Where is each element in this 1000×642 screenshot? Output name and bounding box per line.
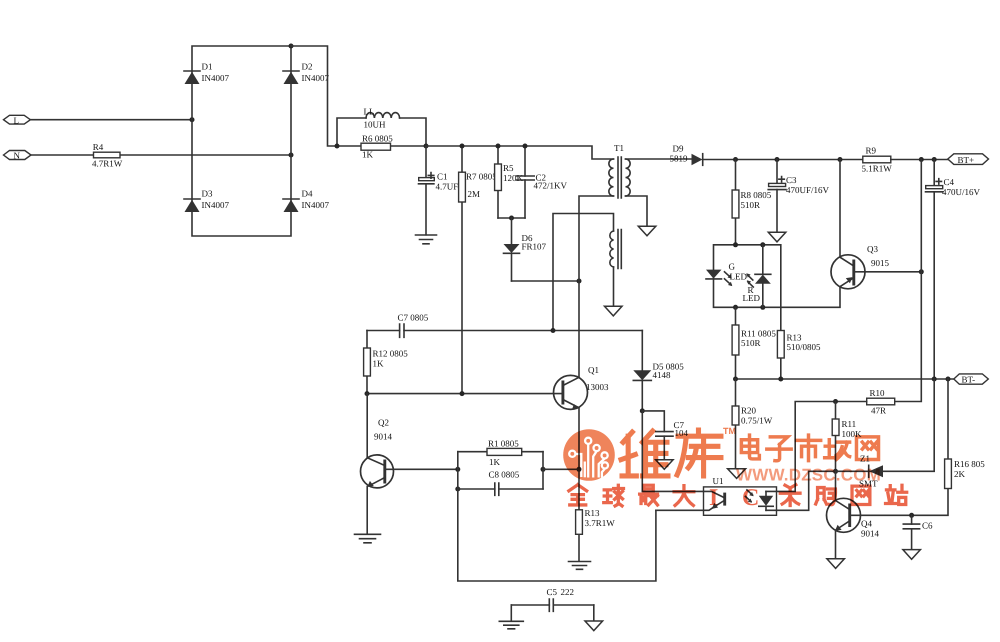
diode D6 FR107 (504, 218, 547, 281)
wire zener row (809, 379, 935, 471)
node LC left (335, 144, 340, 149)
wire BT+ sense vertical (895, 160, 922, 402)
resistor R11 100K (832, 402, 862, 472)
node R12 bottom (365, 391, 370, 396)
diode D5 0805 4148 (633, 331, 684, 411)
svg-text:IN4007: IN4007 (202, 200, 230, 210)
node C3 top (775, 157, 780, 162)
svg-text:R12 0805: R12 0805 (373, 349, 409, 359)
node Q3 base top (919, 157, 924, 162)
svg-text:4.7R1W: 4.7R1W (92, 159, 123, 169)
svg-text:WWW.DZSC.COM: WWW.DZSC.COM (736, 466, 881, 485)
wire Q1 base row (367, 393, 562, 395)
svg-text:L: L (14, 115, 20, 125)
wire D6 to primary bottom (512, 280, 580, 282)
node Q3 base right (919, 269, 924, 274)
diode D1 1N4007 (184, 62, 229, 85)
svg-text:Q4: Q4 (861, 519, 872, 529)
node R5 top (496, 144, 501, 149)
svg-text:T1: T1 (614, 143, 624, 153)
node zener junction (833, 469, 838, 474)
svg-text:N: N (14, 151, 21, 161)
svg-text:472/1KV: 472/1KV (534, 181, 568, 191)
ground R13 (569, 562, 591, 570)
ground C3 (768, 232, 786, 242)
node C2 top (523, 144, 528, 149)
svg-text:C6: C6 (922, 521, 933, 531)
node RC left (455, 467, 460, 472)
node R7 top (460, 144, 465, 149)
watermark logo circle (563, 429, 615, 481)
svg-text:IN4007: IN4007 (302, 200, 330, 210)
wire bridge frame (192, 46, 291, 236)
resistor R8 0805 510R (732, 160, 772, 245)
wire U1 right bottom to zener node (777, 471, 809, 510)
watermark slogan (569, 485, 907, 506)
ground C5 left (499, 621, 523, 629)
wire aux winding top (553, 214, 614, 331)
svg-text:R13: R13 (585, 508, 601, 518)
ground aux winding (605, 306, 623, 316)
node C6 top (909, 513, 914, 518)
node R11 100K top (833, 399, 838, 404)
wire bottom rail (458, 489, 656, 581)
ground secondary (638, 226, 656, 236)
port N (4, 151, 32, 161)
transistor Q1 13003 (554, 365, 610, 469)
svg-text:C3: C3 (786, 175, 797, 185)
resistor R16 805 2K (945, 379, 986, 489)
resistor R12 0805 1K (364, 331, 409, 394)
svg-text:R11: R11 (842, 419, 857, 429)
port BT- (954, 374, 989, 385)
diode D4 1N4007 (283, 189, 329, 213)
svg-text:BT-: BT- (962, 375, 976, 385)
wire U1 left bottom (656, 509, 704, 511)
svg-text:R8 0805: R8 0805 (741, 190, 772, 200)
resistor R9 5.1R1W (862, 146, 893, 174)
transistor Q2 9014 (361, 394, 394, 534)
svg-text:C8 0805: C8 0805 (489, 470, 520, 480)
node BT- rail C4 (932, 377, 937, 382)
svg-text:LED: LED (730, 272, 748, 282)
svg-text:13003: 13003 (586, 382, 609, 392)
svg-text:510R: 510R (741, 338, 761, 348)
svg-text:IN4007: IN4007 (302, 73, 330, 83)
watermark text dianzishichangwang (741, 435, 878, 461)
capacitor C5 222 (511, 587, 594, 621)
svg-text:C1: C1 (437, 172, 448, 182)
LED R (743, 245, 771, 307)
ground R20 (728, 469, 746, 479)
node LED box bottom RLED (760, 305, 765, 310)
svg-text:5819: 5819 (670, 154, 689, 164)
node LC right (424, 144, 429, 149)
svg-text:FR107: FR107 (522, 242, 547, 252)
svg-text:R7 0805: R7 0805 (466, 172, 497, 182)
node primary bottom junction (577, 279, 582, 284)
svg-text:R20: R20 (741, 406, 757, 416)
svg-text:0.75/1W: 0.75/1W (741, 416, 773, 426)
ground C6 (903, 550, 921, 560)
transformer T1 (609, 143, 630, 269)
svg-text:C4: C4 (944, 177, 955, 187)
capacitor C7 0805 (398, 313, 429, 338)
node R7 bottom (460, 391, 465, 396)
port L (4, 115, 31, 125)
svg-text:5.1R1W: 5.1R1W (862, 164, 893, 174)
svg-text:2K: 2K (954, 469, 966, 479)
svg-text:Q3: Q3 (867, 244, 878, 254)
resistor R4 (92, 142, 123, 169)
resistor R20 0.75/1W (732, 379, 773, 468)
svg-text:C5: C5 (547, 587, 558, 597)
capacitor C6 (903, 515, 933, 549)
svg-text:D3: D3 (202, 189, 213, 199)
node D6 tap (509, 216, 514, 221)
svg-text:47R: 47R (871, 406, 886, 416)
node aux feedback to C7 row (551, 328, 556, 333)
capacitor C1 4.7UF (419, 146, 459, 235)
wire rail D9 to R9 (703, 159, 863, 161)
ground C1 (416, 235, 437, 244)
node Q3 collector top (838, 157, 843, 162)
wire RC block frame (458, 452, 579, 489)
capacitor C3 470UF/16V (768, 160, 829, 233)
transistor Q4 9014 (827, 471, 880, 558)
capacitor C4 470U/16V (926, 160, 981, 380)
ground Q4 (827, 559, 845, 569)
svg-text:G: G (729, 262, 736, 272)
node bridge top-right (289, 44, 294, 49)
svg-text:470UF/16V: 470UF/16V (786, 185, 830, 195)
svg-text:D4: D4 (302, 189, 313, 199)
wire L to bridge (30, 119, 192, 121)
resistor R6 0805 1K (337, 134, 426, 160)
capacitor C8 0805 (458, 470, 543, 496)
diode D3 1N4007 (184, 189, 229, 213)
svg-text:1K: 1K (489, 457, 501, 467)
wire bridge output to LC filter (291, 46, 337, 146)
svg-text:R6 0805: R6 0805 (362, 134, 393, 144)
svg-text:R9: R9 (866, 146, 877, 156)
svg-text:R16 805: R16 805 (954, 459, 985, 469)
wire R10 left to U1 (777, 402, 867, 492)
svg-text:R10: R10 (870, 388, 886, 398)
node BT- rail R16 (946, 377, 951, 382)
node BT- rail R11 (733, 377, 738, 382)
node RC right (541, 467, 546, 472)
wire aux winding bottom (613, 267, 615, 306)
svg-text:C7 0805: C7 0805 (398, 313, 429, 323)
optocoupler U1 (704, 476, 777, 515)
svg-text:1K: 1K (373, 359, 385, 369)
capacitor C7 104 (642, 411, 688, 460)
wire rail R9 to BT+ (891, 159, 948, 161)
wire secondary output rail (626, 158, 692, 160)
capacitor C2 472/1KV (516, 146, 567, 218)
node L-bridge junction (190, 117, 195, 122)
transistor Q3 9015 (831, 160, 890, 289)
wire C7 0805 row (367, 330, 642, 332)
svg-text:R4: R4 (93, 142, 104, 152)
svg-text:1K: 1K (362, 150, 374, 160)
svg-text:BT+: BT+ (958, 155, 975, 165)
svg-text:IN4007: IN4007 (202, 73, 230, 83)
wire primary bottom (579, 196, 614, 377)
wire Q3 base to feedback (854, 271, 922, 273)
svg-text:D2: D2 (302, 62, 313, 72)
wire R5-C2 bottom tie (498, 217, 525, 219)
svg-text:470U/16V: 470U/16V (942, 187, 981, 197)
wire BT- rail (736, 378, 954, 380)
resistor R13 510/0805 (777, 307, 821, 379)
svg-text:2M: 2M (468, 189, 481, 199)
svg-text:9014: 9014 (861, 529, 880, 539)
node R8 top (733, 157, 738, 162)
svg-text:R5: R5 (503, 163, 514, 173)
svg-text:TM: TM (723, 426, 736, 436)
inductor LL 10UH (337, 107, 426, 147)
svg-text:222: 222 (561, 587, 575, 597)
ground Q2 (355, 534, 381, 543)
node C8 left corner (455, 487, 460, 492)
resistor R10 47R (867, 388, 895, 416)
svg-text:510/0805: 510/0805 (787, 342, 822, 352)
svg-text:9014: 9014 (374, 432, 393, 442)
svg-text:C: C (742, 485, 759, 511)
node N-bridge junction (289, 153, 294, 158)
svg-text:510R: 510R (741, 200, 761, 210)
LED G (706, 262, 747, 287)
node LED box top R8 (733, 242, 738, 247)
svg-text:120K: 120K (503, 173, 524, 183)
resistor R5 120K (495, 146, 524, 218)
resistor R13 3.7R1W (576, 469, 616, 561)
diode D9 5819 (670, 144, 703, 166)
port BT+ (948, 154, 989, 165)
node LED box top RLED (760, 242, 765, 247)
svg-text:4.7UF: 4.7UF (436, 182, 459, 192)
wire N to bridge (31, 154, 291, 156)
wire primary DC rail (426, 146, 614, 159)
node BT- rail R13 (778, 377, 783, 382)
ground C5 right (585, 621, 603, 631)
watermark text weiku (621, 430, 721, 476)
svg-text:R1 0805: R1 0805 (488, 439, 519, 449)
diode D2 1N4007 (283, 62, 329, 85)
node C4 top (932, 157, 937, 162)
diode Z1 SMT (859, 454, 883, 489)
svg-text:4148: 4148 (653, 370, 672, 380)
node Q1 emitter (577, 467, 582, 472)
svg-text:LED: LED (743, 293, 761, 303)
wire U1 left top to D5 node (642, 411, 703, 492)
LED box frame (714, 245, 781, 307)
svg-text:LL: LL (364, 107, 375, 117)
resistor R1 0805 1K (458, 439, 543, 467)
wire LED box bottom to Q3 emitter (781, 287, 840, 307)
svg-text:Q1: Q1 (588, 365, 599, 375)
svg-text:Q2: Q2 (378, 418, 389, 428)
svg-text:I: I (709, 485, 718, 511)
wire secondary bottom (626, 196, 648, 226)
svg-text:9015: 9015 (871, 258, 890, 268)
node D5 bottom junction (640, 408, 645, 413)
node LED box bottom R11 (733, 305, 738, 310)
ground C7 104 (656, 460, 674, 470)
svg-text:D9: D9 (673, 144, 684, 154)
resistor R7 0805 2M (459, 146, 498, 394)
resistor R11 0805 510R (732, 307, 776, 379)
svg-text:D1: D1 (202, 62, 213, 72)
svg-text:3.7R1W: 3.7R1W (585, 518, 616, 528)
wire Q2 base row (385, 468, 458, 470)
svg-text:10UH: 10UH (364, 120, 386, 130)
wire Q4 base row (850, 489, 948, 516)
